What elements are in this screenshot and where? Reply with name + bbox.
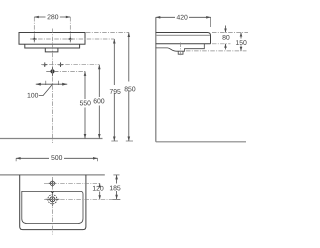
top view bowl outline <box>22 191 83 223</box>
leader for 100 <box>39 84 53 95</box>
front view drain cover <box>45 48 58 52</box>
wall fixing hole right <box>58 62 63 67</box>
front mounting hole right <box>68 36 73 41</box>
faucet hole <box>49 180 56 187</box>
front view under-slab step <box>25 44 80 48</box>
dimension 150 <box>240 33 243 51</box>
dimension 420 <box>156 16 211 27</box>
dimension 795 <box>113 39 116 141</box>
dimension 100 <box>36 81 67 96</box>
center line top view <box>51 177 53 235</box>
dimension 500 <box>16 157 97 161</box>
wall fixing hole left <box>42 62 47 67</box>
side view waste stub <box>178 51 183 54</box>
dimension 850 <box>128 33 131 142</box>
front mounting hole left <box>32 36 37 41</box>
wall line side view <box>155 17 157 142</box>
fixing holes reference to 600 line <box>41 64 99 66</box>
rim top reference to 850 line <box>86 32 129 34</box>
top view basin outline <box>20 175 86 230</box>
side view rim inner line <box>157 34 210 36</box>
hole centerline right vertical <box>69 17 71 43</box>
ground tick under 795 <box>111 140 118 142</box>
trap bottom reference right <box>186 50 247 52</box>
hole centerline horizontal to 795 line <box>30 38 114 40</box>
slab bottom reference right <box>212 43 231 45</box>
ground tick under 850 <box>126 140 133 142</box>
side view bowl underside <box>156 44 205 51</box>
hole centerline left vertical <box>33 17 35 43</box>
floor line side view <box>156 141 246 143</box>
front view basin body <box>19 33 85 45</box>
dimension 185 <box>113 175 121 199</box>
dimension 80 <box>224 26 227 50</box>
floor line front view <box>0 138 103 140</box>
drain outlet dot <box>47 67 58 77</box>
side view drain centerline <box>180 43 182 56</box>
wall line top view <box>0 174 105 176</box>
overflow marker triangle <box>51 192 54 194</box>
drain reference line <box>44 198 120 200</box>
drain dot reference to 550 line <box>46 70 85 72</box>
dimension 550 <box>84 71 87 138</box>
dimension 600 <box>98 65 101 139</box>
rim top reference right <box>212 32 248 34</box>
dimension 120 <box>98 183 101 199</box>
faucet hole reference line <box>44 182 100 184</box>
side view slab bottom <box>156 43 211 45</box>
side view rim top <box>156 33 211 44</box>
center line front view <box>51 29 53 144</box>
drain circle <box>46 192 60 206</box>
dimension 280 <box>34 16 70 19</box>
